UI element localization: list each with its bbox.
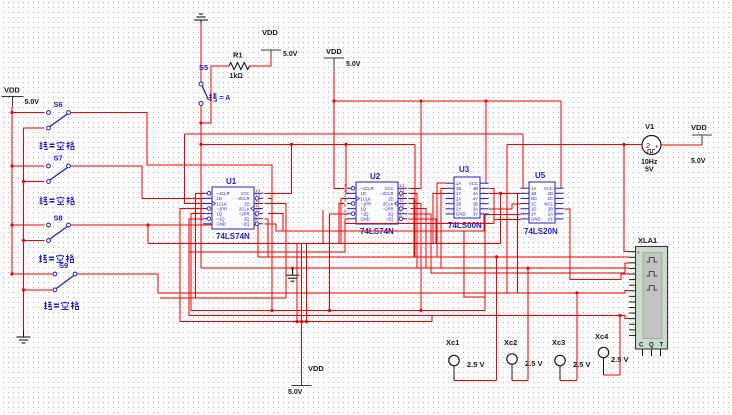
wire U2 GND chain xyxy=(345,219,494,224)
junction L6 tap b xyxy=(300,320,303,323)
wire bus L6 y=321.6 xyxy=(180,209,432,322)
power VDD symbol VDD bottom xyxy=(288,364,324,396)
power VDD symbol VDD center xyxy=(324,47,361,70)
svg-text:2.5 V: 2.5 V xyxy=(467,360,485,369)
wire U5 1Y chain xyxy=(485,214,521,310)
svg-text:5.0V: 5.0V xyxy=(691,158,706,165)
label under S7 键 = 空格 xyxy=(40,197,75,205)
svg-text:2Y: 2Y xyxy=(548,217,553,222)
wire mid vertical a xyxy=(296,243,298,321)
junction L4 U2 tap xyxy=(328,309,331,312)
wire Xc3 wire xyxy=(560,379,577,381)
wire S7 top stub xyxy=(12,165,45,167)
junction L6 tap c xyxy=(305,320,308,323)
svg-text:VDD: VDD xyxy=(262,28,278,37)
resistor R1 xyxy=(229,51,249,81)
wire U5 2Y feeder to XLA pin5 xyxy=(564,209,629,279)
wire riser U1 VCC xyxy=(265,144,292,193)
wire ground rail vertical x=23.5 xyxy=(23,128,25,330)
wire VDD bottom drop xyxy=(301,322,303,375)
svg-text:. .: . . xyxy=(375,216,378,221)
junction L3 Xc3 tap xyxy=(575,291,578,294)
ground ground bottom-left xyxy=(17,330,31,343)
svg-text:GND: GND xyxy=(456,212,466,217)
svg-text:~2Q: ~2Q xyxy=(241,222,250,227)
probe Xc4 2.5V xyxy=(595,332,629,375)
logic analyzer XLA1 xyxy=(629,236,668,356)
wire Xc4 riser xyxy=(619,316,621,376)
wire U1 pin1 drop xyxy=(160,193,286,298)
wire x517 drop xyxy=(517,193,519,292)
wire R1 left lead xyxy=(211,65,229,67)
wire bus L3 y=293 to XLA pin8 xyxy=(158,291,629,293)
wire V1 right wire to VDD xyxy=(661,144,702,146)
svg-text:5.0V: 5.0V xyxy=(346,61,361,68)
wire net y=243 xyxy=(148,242,501,244)
wire VDD rail vertical x=12 xyxy=(11,107,13,274)
svg-text:Q: Q xyxy=(649,343,654,349)
junction V1 tap to XLA xyxy=(622,143,625,146)
switch S7 xyxy=(47,154,71,184)
svg-text:S9: S9 xyxy=(59,261,68,270)
junction S8 rail tap xyxy=(10,223,13,226)
wire S8 branch drop xyxy=(147,225,149,243)
wire S8 bottom stub xyxy=(24,240,45,242)
wire U3 1A drop xyxy=(437,183,446,257)
label under S8 键 = 空格 xyxy=(39,255,74,263)
wire S8 top stub xyxy=(12,224,45,226)
wire Xc2 riser xyxy=(527,268,529,380)
wire V1 left wire xyxy=(507,144,642,146)
wire U3 right to x494 xyxy=(489,188,494,223)
junction net193 tap xyxy=(499,192,502,195)
label key = A xyxy=(209,93,230,102)
wire U2 2Q feeder xyxy=(409,214,630,273)
junction S9 rail tap xyxy=(10,272,13,275)
junction L5 Xc4 tap xyxy=(618,314,621,317)
svg-text:GND: GND xyxy=(531,217,541,222)
wire x494 to U5 GND xyxy=(494,219,521,221)
svg-text:5.0V: 5.0V xyxy=(288,389,303,396)
svg-text:8: 8 xyxy=(399,213,402,219)
probe Xc1 2.5V xyxy=(446,338,485,380)
wire x500 drop xyxy=(500,193,502,243)
wire U2 2CLK drop xyxy=(409,204,422,311)
junction S7 rail tap xyxy=(10,164,13,167)
junction net A at U1 VCC riser xyxy=(290,143,293,146)
junction L4 tap x421 xyxy=(419,309,422,312)
junction L2 Xc2 tap xyxy=(526,267,529,270)
svg-text:S6: S6 xyxy=(54,100,63,109)
wire V1 drop to XLA pin1 xyxy=(624,145,629,252)
wire bus L5 y=315.5 xyxy=(189,219,620,316)
svg-text:GND: GND xyxy=(217,222,226,227)
wire V1 left column drop xyxy=(506,145,508,293)
svg-text:C: C xyxy=(639,343,644,349)
svg-text:3Y: 3Y xyxy=(473,212,478,217)
junction VDD2 tap U3 xyxy=(484,99,487,102)
switch S6 xyxy=(47,100,71,130)
junction net A at U2 riser xyxy=(344,143,347,146)
wire S6 bottom stub xyxy=(24,127,45,129)
junction S9 gnd tap xyxy=(22,288,25,291)
junction L1 Xc1 tap xyxy=(495,255,498,258)
junction L4 S6 tap xyxy=(270,309,273,312)
wire U3 1B drop xyxy=(441,188,446,268)
wire net y=134 xyxy=(185,133,524,135)
svg-text:5.0V: 5.0V xyxy=(25,99,40,106)
wire VDD2 to U2 VCC xyxy=(409,101,422,188)
wire L4 right end jog xyxy=(464,231,485,311)
junction L6 tap a xyxy=(295,320,298,323)
IC U1 74LS74N xyxy=(200,177,263,241)
wire U1 2D link xyxy=(265,203,287,268)
junction S7 gnd tap xyxy=(22,180,25,183)
wire U2 left pin3 drop xyxy=(341,198,348,243)
svg-text:74LS20N: 74LS20N xyxy=(524,227,558,236)
wire S6 top stub xyxy=(12,112,45,114)
svg-text:T: T xyxy=(660,343,664,349)
junction S5 at y=144 xyxy=(199,143,202,146)
svg-text:+: + xyxy=(655,145,659,151)
svg-text:Xc4: Xc4 xyxy=(595,332,609,341)
svg-text:U2: U2 xyxy=(370,172,381,181)
wire VDD2 to U3 VCC xyxy=(485,101,487,183)
svg-text:Xc1: Xc1 xyxy=(446,338,459,347)
clock source V1 10Hz 5V xyxy=(641,122,661,174)
svg-text:S7: S7 xyxy=(54,154,63,163)
wire x286 to y298 xyxy=(285,268,287,298)
svg-text:VDD: VDD xyxy=(326,47,342,56)
svg-text:74LS74N: 74LS74N xyxy=(216,232,250,241)
IC U3 74LS00N xyxy=(446,165,489,230)
wire net A right drop xyxy=(414,144,416,257)
svg-text:VDD: VDD xyxy=(691,123,707,132)
wire mid vertical c xyxy=(306,243,308,321)
svg-text:2.5 V: 2.5 V xyxy=(573,360,591,369)
wire S6 output xyxy=(71,113,273,311)
svg-text:8: 8 xyxy=(255,218,258,224)
wire S9 output xyxy=(77,274,159,293)
junction VDD2 base xyxy=(332,99,335,102)
svg-text:U1: U1 xyxy=(226,177,237,186)
junction VDD2 tap U2 xyxy=(419,99,422,102)
wire net A y=144 xyxy=(201,143,415,145)
label under S9 键 = 空格 xyxy=(44,302,79,310)
svg-text:2: 2 xyxy=(646,141,650,150)
wire U3 3A to U5 1C xyxy=(489,204,521,209)
switch S8 xyxy=(47,214,71,243)
junction S8 gnd tap xyxy=(22,239,25,242)
wire S8 output xyxy=(71,225,259,257)
wire S9 top stub xyxy=(12,273,53,275)
svg-text:GND: GND xyxy=(361,217,370,222)
wire Xc1 wire xyxy=(454,379,497,381)
junction S5 hook xyxy=(199,121,202,124)
svg-text:~2Q: ~2Q xyxy=(385,217,394,222)
wire net y=134 right drop to U5 1A xyxy=(522,134,524,188)
wire U1 2Q drop xyxy=(265,219,269,257)
wire S5 hook to R1 xyxy=(201,66,211,123)
wire bus L2 y=268 to XLA pin4 xyxy=(201,267,629,269)
wire S7 bottom stub xyxy=(24,181,45,183)
wire U1 pin13 link xyxy=(268,197,272,199)
wire U3-U5 net y=193.4 xyxy=(489,192,521,194)
wire S7 output to U1 1D xyxy=(71,166,204,198)
svg-text:74LS00N: 74LS00N xyxy=(448,221,482,230)
power VDD symbol VDD at V1 xyxy=(691,123,712,165)
ground ground mid xyxy=(286,268,300,281)
wire mid vertical b xyxy=(301,243,303,321)
wire U2 -2CLR drop xyxy=(409,193,418,268)
wire U2 ~1Q drop xyxy=(330,214,348,311)
wire U2 2D drop xyxy=(409,198,415,257)
svg-text:VDD: VDD xyxy=(4,86,20,95)
wire S9 bottom stub xyxy=(24,289,54,291)
junction S6 rail tap xyxy=(10,111,13,114)
IC U5 74LS20N xyxy=(521,171,564,236)
svg-text:U5: U5 xyxy=(535,171,546,180)
svg-text:1kΩ: 1kΩ xyxy=(230,73,244,80)
wire U-link y=252 xyxy=(189,223,345,252)
wire bus L1 y=257 to XLA pin2 xyxy=(258,256,629,258)
probe Xc2 2.5V xyxy=(504,338,543,380)
ground ground top xyxy=(194,14,208,23)
wire Xc1 riser xyxy=(496,257,498,381)
wire U2 left pin4 drop xyxy=(339,204,345,244)
wire Xc4 wire xyxy=(604,374,621,376)
svg-text:5.0V: 5.0V xyxy=(283,51,298,58)
wire VDD2 to U2 pin1 xyxy=(334,101,345,188)
wire VDD2 to U5 VCC xyxy=(560,101,562,188)
wire U3 1Y drop xyxy=(433,193,446,243)
wire R1 right lead to VDD xyxy=(249,58,271,66)
svg-text:= A: = A xyxy=(220,95,231,102)
wire bus L4 y=310.5 xyxy=(191,214,485,311)
switch S5 xyxy=(199,63,209,106)
wire Xc2 wire xyxy=(512,379,528,381)
wire VDD2 trunk y=101 xyxy=(334,100,561,102)
svg-text:XLA1: XLA1 xyxy=(638,236,657,245)
wire U2 -2PR drop xyxy=(410,209,426,269)
svg-text:VDD: VDD xyxy=(308,364,324,373)
wire net y=134 left drop to U1 1CLK xyxy=(185,134,204,203)
power VDD symbol VDD at R1 xyxy=(261,28,298,58)
IC U2 74LS74N xyxy=(344,172,407,236)
power VDD symbol VDD left rail xyxy=(2,86,40,108)
wire mid vertical x=323 xyxy=(322,210,324,243)
wire S5 bottom column x=201 xyxy=(200,106,202,269)
wire Xc3 riser xyxy=(576,293,578,381)
svg-text:V1: V1 xyxy=(645,122,654,131)
wire VDD2 stem down xyxy=(333,70,335,101)
switch S9 xyxy=(53,261,77,292)
wire U1 -2Q to y=231 xyxy=(265,214,485,231)
svg-text:10Hz: 10Hz xyxy=(641,159,658,166)
svg-text:Xc3: Xc3 xyxy=(552,338,565,347)
svg-text:5V: 5V xyxy=(645,167,654,174)
junction S8 branch xyxy=(146,223,149,226)
wire ground to S5 top xyxy=(200,23,202,82)
svg-text:. .: . . xyxy=(231,221,234,226)
svg-text:Xc2: Xc2 xyxy=(504,338,517,347)
svg-text:S8: S8 xyxy=(54,214,63,223)
wire L5 to XLA pin13 xyxy=(620,316,629,319)
label under S6 键 = 空格 xyxy=(40,142,75,150)
svg-text:U3: U3 xyxy=(459,165,470,174)
wire U2 -2Q drop xyxy=(409,219,437,244)
junction L2 ground tap xyxy=(291,267,294,270)
svg-text:S5: S5 xyxy=(199,63,208,72)
wire riser U2 1D xyxy=(346,144,349,193)
probe Xc3 2.5V xyxy=(552,338,591,380)
svg-text:R1: R1 xyxy=(233,51,243,60)
wire U1 -2PR link xyxy=(268,214,283,232)
